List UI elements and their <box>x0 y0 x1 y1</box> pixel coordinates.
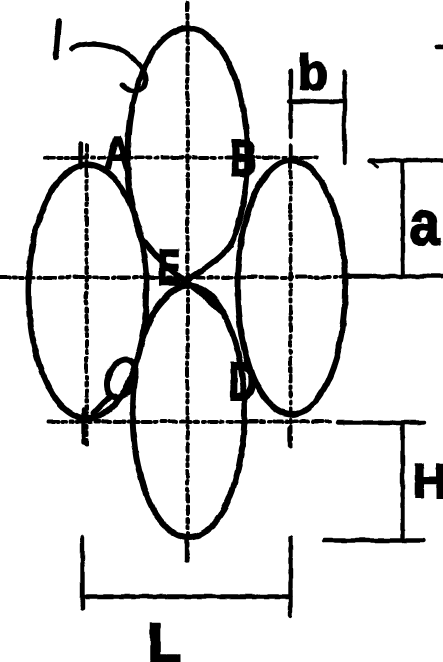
svg-text:E: E <box>157 239 180 295</box>
svg-text:b: b <box>297 44 328 100</box>
tick at right ellipse top tangent <box>288 145 292 162</box>
svg-text:H: H <box>412 455 443 508</box>
tick at left ellipse top tangent <box>78 144 82 167</box>
dimension b right extension line <box>342 71 346 162</box>
dimension H vertical line <box>400 422 404 540</box>
ellipse bottom <box>132 285 244 537</box>
stray scan mark top right <box>436 44 443 48</box>
tick at left ellipse bottom tangent <box>81 409 85 442</box>
dimension a arrow nick <box>369 160 377 166</box>
centerline horizontal H3 (through C-D, bottoms of side ellipses) <box>48 419 332 423</box>
dimension H bottom tick <box>324 538 423 542</box>
dimension a top tick <box>369 158 443 162</box>
centerline vertical V2 (through left ellipse) <box>84 145 88 446</box>
ellipse left <box>28 164 146 418</box>
svg-text:L: L <box>147 610 181 662</box>
centerline horizontal H1 (through A-B, tops of side ellipses) <box>44 155 316 159</box>
top ellipse right arc extension through node E to bottom ellipse left side <box>148 245 230 319</box>
ellipse right <box>237 160 345 414</box>
dimension H top tick <box>337 420 423 424</box>
dimension L horizontal line <box>82 594 290 598</box>
leader line for reference 1 <box>71 43 145 90</box>
dimension a bottom tick <box>347 274 443 278</box>
dimension L right extension line <box>288 537 292 615</box>
svg-text:a: a <box>409 189 439 258</box>
centerline vertical V1 (through top and bottom ellipses) <box>185 2 189 560</box>
centerline horizontal H2 (through center E) <box>0 275 350 279</box>
reference numeral 1 <box>55 21 58 57</box>
node label C drawn loop <box>93 354 141 413</box>
centerline vertical V3 (through right ellipse) <box>288 164 292 446</box>
dimension a vertical line <box>400 161 404 276</box>
top ellipse left arc extension through node E to bottom ellipse right side <box>141 238 221 311</box>
tick at bottom ellipse bottom tangent <box>184 538 188 560</box>
tick at right ellipse bottom tangent <box>287 428 291 445</box>
svg-text:D: D <box>228 351 256 411</box>
dimension L left extension line <box>80 537 84 608</box>
dimension b horizontal line <box>288 99 344 103</box>
svg-text:A: A <box>103 126 131 178</box>
ellipse top (element 1), open at bottom <box>127 28 247 245</box>
svg-text:B: B <box>230 130 256 186</box>
dimension b left extension line <box>288 70 292 136</box>
